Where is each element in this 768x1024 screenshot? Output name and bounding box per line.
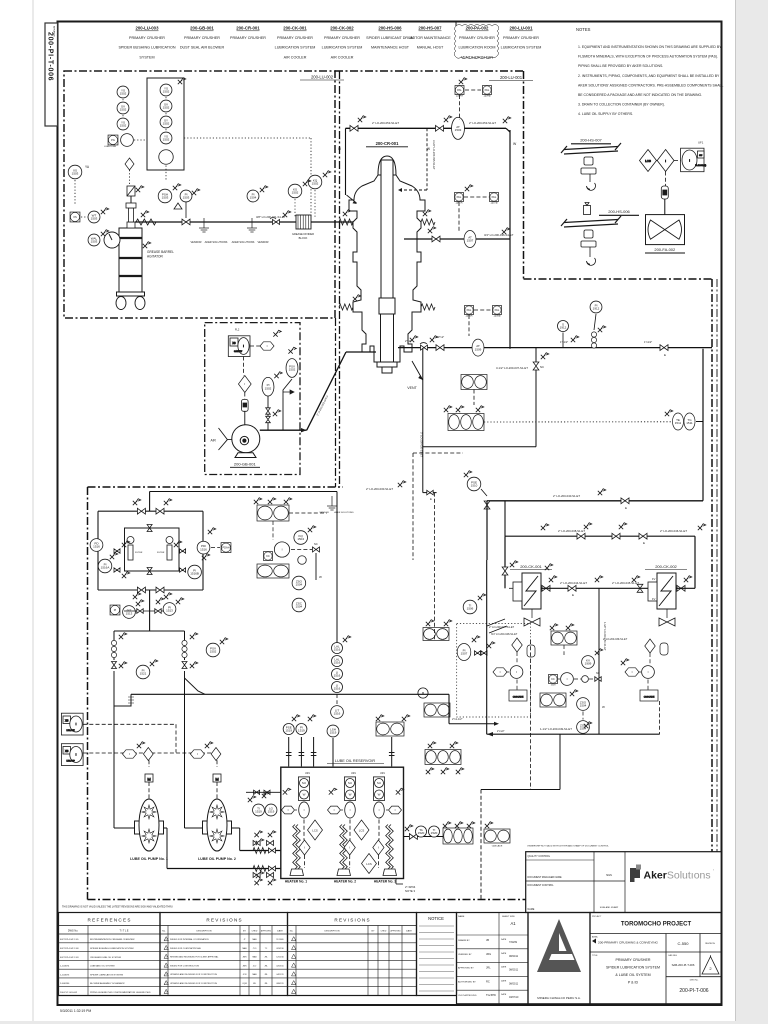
svg-text:DWG No.: DWG No. (690, 980, 699, 982)
svg-text:PAL: PAL (457, 195, 462, 199)
svg-text:R E V I S I O N S: R E V I S I O N S (206, 918, 241, 923)
svg-text:1504: 1504 (297, 537, 304, 541)
vent pair box (376, 722, 404, 736)
svg-text:02/13/11: 02/13/11 (276, 965, 283, 967)
signal to AT-1507 (458, 202, 460, 232)
heater diamond 1 (299, 840, 310, 855)
valve tag flag (256, 872, 264, 878)
svg-text:08/02/11: 08/02/11 (509, 982, 519, 985)
svg-text:1516: 1516 (334, 712, 341, 716)
angle valve pump1 (113, 671, 115, 680)
svg-text:CRUSHER LUBE OIL SYSTEM: CRUSHER LUBE OIL SYSTEM (90, 957, 121, 959)
svg-text:PA-H-002(M): PA-H-002(M) (695, 164, 706, 167)
valve tag flag (274, 372, 282, 378)
svg-text:DRAWN BY: DRAWN BY (458, 939, 470, 942)
instrument KQ-1502 (308, 175, 322, 189)
valve tag flag (503, 117, 511, 123)
valve tag flag (136, 600, 144, 606)
valve tag flag (566, 624, 574, 630)
valve tag flag (110, 553, 118, 559)
valve below filters R (155, 609, 161, 614)
heater zigzag 2 (340, 825, 345, 870)
svg-text:BLOCK: BLOCK (299, 236, 308, 240)
indicator TI-1506 (463, 600, 477, 614)
pump2 suction connect (185, 827, 203, 829)
stack oval W 3 (374, 790, 383, 799)
page bottom gray margin (0, 1021, 768, 1024)
interlock diamond fan1 (512, 638, 523, 652)
svg-text:AGITATOR: AGITATOR (147, 255, 163, 259)
enclosure top dashed (413, 452, 463, 454)
valve tag flag (444, 620, 452, 626)
valve crusher upper (432, 236, 440, 242)
svg-text:PRIMARY CRUSHER: PRIMARY CRUSHER (184, 36, 220, 40)
triple instrument TC-1511 (448, 414, 484, 431)
svg-text:DESCRIPTION: DESCRIPTION (197, 931, 212, 933)
pump1 suction drop (113, 631, 115, 660)
svg-text:LUB.PMP: LUB.PMP (67, 730, 76, 732)
svg-text:NAME: NAME (528, 908, 535, 911)
svg-text:1520: 1520 (431, 831, 438, 835)
title block bottom (457, 1003, 722, 1005)
valve CK-001 outlet (542, 585, 550, 591)
svg-text:1502: 1502 (163, 106, 170, 110)
reservoir top-left valve (254, 790, 260, 794)
valve tag flag (595, 576, 603, 582)
svg-text:E: E (430, 497, 432, 501)
hoist motor M capsule (661, 186, 668, 199)
filter top valve R (156, 508, 164, 514)
pipe drop to arrow branch (448, 694, 450, 723)
interlock diamond fan2 (645, 639, 656, 653)
svg-text:1519: 1519 (330, 731, 337, 735)
svg-text:DUST SEAL AIR BLOWER: DUST SEAL AIR BLOWER (180, 46, 225, 50)
svg-text:MAB: MAB (252, 938, 257, 941)
LCS diamond 1 (308, 820, 323, 840)
signal combo to diamond (243, 357, 245, 376)
riser center (332, 738, 334, 766)
svg-text:PROJECT: PROJECT (592, 916, 602, 918)
valve tag flag (119, 633, 127, 639)
drain valve 4 (267, 872, 274, 877)
svg-text:AIR COOLER: AIR COOLER (331, 55, 354, 59)
svg-text:UR1: UR1 (305, 772, 310, 775)
svg-text:200-FA-002: 200-FA-002 (654, 247, 676, 252)
svg-text:GASTFW: GASTFW (234, 350, 242, 353)
suction valve 1 (111, 662, 116, 669)
valve tag flag (684, 576, 692, 582)
svg-text:& LUBE OIL SYSTEM: & LUBE OIL SYSTEM (615, 973, 650, 977)
signature row (457, 989, 529, 991)
revisions1 col divider (248, 926, 250, 996)
svg-text:APPROVED: APPROVED (391, 930, 402, 933)
svg-text:1″x1/2″: 1″x1/2″ (644, 340, 652, 344)
relief PSE-1510 (467, 477, 481, 491)
svg-text:1516: 1516 (334, 648, 341, 652)
hoist control box UF1 (681, 148, 707, 172)
revisions2 col divider (367, 926, 369, 996)
references col divider (87, 926, 89, 996)
svg-text:04/11/11: 04/11/11 (276, 974, 283, 976)
svg-text:200-PI-T-001-002: 200-PI-T-001-002 (60, 992, 78, 994)
svg-text:HEATER No. 1: HEATER No. 1 (285, 880, 307, 884)
valve tag flag (698, 524, 706, 530)
NC valve fans (595, 677, 601, 682)
pipe riser to return (559, 734, 561, 789)
svg-text:ISSUED FOR CLIENT APPROVAL: ISSUED FOR CLIENT APPROVAL (170, 947, 202, 950)
pipe return header (131, 693, 449, 695)
panel instrument YS2 (160, 132, 172, 144)
valve tag flag (248, 796, 256, 802)
svg-text:1507: 1507 (467, 239, 474, 243)
ZLL pair upper (551, 631, 577, 645)
grease pump assembly (127, 186, 135, 196)
valve tag flag (541, 353, 549, 359)
controller fan1 (510, 666, 523, 679)
controller big I (274, 542, 289, 557)
stack oval SU 1 (299, 778, 308, 787)
pipe drop from cooler line (598, 588, 600, 700)
temp TI-1520 (428, 826, 439, 837)
pipe right vertical descend (702, 349, 704, 501)
filter drain valve 4 (180, 568, 186, 572)
valve tag flag (122, 572, 130, 578)
pipe supply to coolers (487, 500, 703, 502)
svg-text:MAB: MAB (252, 973, 257, 976)
svg-text:1507: 1507 (461, 652, 468, 656)
indicator PI-1507 (457, 644, 471, 661)
valve supply E (621, 498, 629, 504)
element TE-1511 (672, 413, 683, 430)
filter drain valve 3 (180, 549, 186, 553)
svg-text:2-008190: 2-008190 (60, 983, 70, 985)
instrument YS-1502B (117, 118, 129, 130)
filter element right (166, 537, 173, 561)
equipment header 200-GB-001 (180, 26, 225, 50)
check valve lower (421, 345, 428, 350)
CK-002 fan (659, 618, 675, 626)
svg-text:QUALITY CONTROL: QUALITY CONTROL (528, 855, 551, 858)
svg-text:200-CK-001: 200-CK-001 (283, 26, 307, 31)
revision2 triangle row 5 (292, 972, 296, 976)
vent instrument PSE (283, 723, 294, 734)
svg-text:PAL: PAL (485, 88, 490, 92)
svg-text:DOCUMENT MANAGER NAME: DOCUMENT MANAGER NAME (528, 876, 562, 879)
svg-text:DATE: DATE (501, 952, 507, 955)
svg-text:W: W (349, 793, 352, 797)
revisions1 col divider (271, 926, 273, 996)
blower fan 200-GB-001 (232, 425, 260, 458)
valve tag flag (410, 336, 418, 342)
svg-text:W: W (602, 705, 605, 709)
SAH SAL triple box (425, 750, 461, 765)
valve tag flag (621, 659, 629, 665)
solenoid KV-1909 (582, 656, 595, 669)
barrel pump head (126, 195, 136, 228)
valve CK-002 inlet (637, 584, 643, 592)
svg-text:PIPING SHALL BE PROVIDED BY AK: PIPING SHALL BE PROVIDED BY AKER SOLUTIO… (578, 64, 663, 68)
quality control block frame (526, 852, 722, 913)
valve tag flag (254, 498, 262, 504)
pump gear star (210, 805, 224, 819)
svg-text:2" LO-200-053-S1-ET: 2" LO-200-053-S1-ET (372, 121, 399, 125)
svg-text:1-104674: 1-104674 (60, 966, 70, 968)
qc col divider 2 (624, 852, 626, 913)
valve tag flag (164, 593, 172, 599)
svg-text:DATE: DATE (501, 993, 507, 996)
svg-text:DATE: DATE (501, 966, 507, 969)
position ZSC-1504 (577, 721, 590, 734)
page left edge line (32, 0, 34, 1021)
dual temp TAH/TI-1511 (461, 375, 487, 390)
transmitter PDI-1516 (197, 541, 210, 554)
wire M to fan (664, 199, 666, 215)
equipment header 200-LU-001 (501, 26, 542, 50)
stack big oval 3 (374, 802, 385, 818)
svg-text:PRIMARY CRUSHER: PRIMARY CRUSHER (615, 958, 650, 962)
pipe crusher upper right (404, 238, 510, 240)
svg-text:200-CK-001: 200-CK-001 (520, 564, 542, 569)
pipe top center run (346, 127, 507, 129)
filter top valve L (137, 508, 145, 514)
grease line check (273, 219, 280, 224)
instrument XS-1503 (68, 165, 82, 179)
valve tag flag (455, 822, 463, 828)
wire solenoid to blower (244, 411, 246, 424)
svg-text:PIPING LEGEND P&ID / INSTRUMEN: PIPING LEGEND P&ID / INSTRUMENTATION LEG… (90, 991, 151, 994)
valve tag flag (133, 593, 141, 599)
reservoir instrument stack 1 (298, 777, 309, 801)
svg-text:UPDATED AND RE-ISSUED FOR CONS: UPDATED AND RE-ISSUED FOR CONSTRUCTION (170, 973, 218, 976)
svg-text:LUBRICATION SYSTEM: LUBRICATION SYSTEM (501, 46, 542, 50)
signal between PAL pair (465, 89, 481, 91)
svg-text:1502: 1502 (163, 138, 170, 142)
pump motor M box (213, 774, 221, 782)
svg-text:AKER SOLUTIONS: AKER SOLUTIONS (205, 240, 228, 244)
svg-text:1519: 1519 (285, 729, 292, 733)
svg-text:CASCADE: CASCADE (492, 845, 503, 848)
boundary LU-001 bottom-right segment (524, 278, 713, 280)
svg-text:1″x1/2″: 1″x1/2″ (560, 340, 568, 344)
svg-text:HEATER No. 3: HEATER No. 3 (374, 880, 396, 884)
svg-text:3/8" LO-200-021-S1-ET: 3/8" LO-200-021-S1-ET (256, 215, 286, 219)
analyzer AT-1503 (452, 117, 465, 139)
svg-text:RC: RC (486, 979, 490, 983)
header spring drop to riser 1 (114, 694, 131, 706)
svg-text:LUBRICATION SYSTEM: LUBRICATION SYSTEM (275, 46, 316, 50)
svg-text:APPROVED: APPROVED (261, 930, 272, 933)
svg-text:1519: 1519 (255, 810, 262, 814)
svg-text:SYSTEM: SYSTEM (139, 55, 154, 59)
svg-text:DOCUMENT CONTROL: DOCUMENT CONTROL (528, 884, 555, 887)
svg-text:PRIMARY CRUSHER: PRIMARY CRUSHER (459, 36, 495, 40)
svg-text:R E V I S I O N S: R E V I S I O N S (334, 918, 369, 923)
svg-text:LUBE OIL RESERVOIR: LUBE OIL RESERVOIR (335, 759, 376, 763)
gauge PI-1521 (136, 665, 150, 679)
valve tag flag (164, 499, 172, 505)
valve tag flag (549, 576, 557, 582)
svg-text:LUB.PMP: LUB.PMP (67, 761, 76, 763)
pipe between coolers (541, 587, 654, 589)
valve tag flag (510, 561, 518, 567)
valve tag flag (273, 330, 281, 336)
svg-text:3-1/2" LO-200-037-S1-ET: 3-1/2" LO-200-037-S1-ET (496, 366, 528, 370)
bypass valve 1 (577, 533, 585, 539)
valve CK-001 inlet (502, 567, 508, 575)
boundary LU-001 left edge (523, 71, 525, 279)
TDI pair box (423, 628, 449, 641)
svg-text:1/2″x2″: 1/2″x2″ (436, 335, 444, 339)
svg-text:1510: 1510 (471, 484, 478, 488)
svg-text:FV: FV (652, 577, 656, 581)
svg-text:DATE: DATE (406, 930, 412, 933)
reservoir outlet valve (409, 834, 417, 840)
svg-text:MOTOR MAINTENANCE: MOTOR MAINTENANCE (409, 36, 451, 40)
svg-text:08/02/11: 08/02/11 (509, 969, 519, 972)
TSH TSL pair box (424, 703, 450, 717)
stack hex 3 (389, 806, 402, 814)
small valve b (481, 651, 487, 655)
blower interlock diamond (238, 376, 251, 393)
svg-text:02/02/10: 02/02/10 (276, 948, 283, 950)
blower hex I (260, 342, 274, 350)
svg-text:FV: FV (652, 597, 656, 601)
cad col divider (665, 952, 667, 1004)
instrument WT-1503 (88, 211, 100, 223)
revisions1 col divider (259, 926, 261, 996)
svg-text:INSTRUMENTATION CRUSHER OVERVI: INSTRUMENTATION CRUSHER OVERVIEW (90, 938, 135, 941)
valve tag flag (268, 879, 276, 885)
valve tag flag (260, 186, 268, 192)
pipe cooler bypass top (505, 535, 695, 537)
LCS diamond 3 (362, 854, 377, 874)
revisions2 col divider (401, 926, 403, 996)
svg-text:NOTES: NOTES (576, 27, 591, 32)
svg-text:2. INSTRUMENTS, PIPING, COMPO: 2. INSTRUMENTS, PIPING, COMPONENTS, AND … (578, 74, 720, 78)
pipe CK-001 feed (504, 536, 506, 588)
valve tag flag (426, 620, 434, 626)
revision triangle row 3 (164, 954, 168, 958)
svg-text:HEATER No. 2: HEATER No. 2 (334, 880, 356, 884)
svg-text:SAB-200-PI-T-006: SAB-200-PI-T-006 (672, 963, 695, 967)
valve crusher lower (436, 345, 444, 351)
svg-text:R E F E R E N C E S: R E F E R E N C E S (88, 918, 131, 923)
filter drain valve 2 (114, 568, 120, 572)
boundary right vertical (711, 279, 713, 900)
TC-1520 cluster (443, 828, 473, 844)
valve tag flag (444, 406, 452, 412)
svg-text:2″x1-1/2″: 2″x1-1/2″ (452, 717, 463, 721)
PI tap valve 1 (266, 408, 271, 414)
svg-text:PRIMARY CRUSHER: PRIMARY CRUSHER (129, 36, 165, 40)
svg-text:APPROVED BY: APPROVED BY (458, 967, 474, 970)
cloud revision outline around PA-002 header (454, 21, 499, 59)
svg-text:DATE: DATE (277, 930, 283, 933)
pump1 suction connect (114, 827, 135, 829)
instrument PAL-1504B (483, 86, 492, 95)
panel instrument SY-1502 (160, 116, 172, 128)
svg-text:6: 6 (166, 992, 167, 994)
svg-text:AREA: AREA (592, 936, 598, 939)
signal panel to right (184, 137, 311, 139)
pump1 check (269, 866, 276, 871)
tap instrument S (557, 320, 568, 331)
svg-text:2" LO-200-046-S1-ET: 2" LO-200-046-S1-ET (660, 529, 687, 533)
svg-text:AKER SOLUTIONS: AKER SOLUTIONS (232, 240, 255, 244)
svg-text:1509B: 1509B (494, 315, 501, 318)
signature row (457, 948, 529, 950)
valve tag flag (570, 690, 578, 696)
svg-text:NC: NC (596, 672, 600, 675)
vent instrument PI (296, 723, 307, 734)
pipe long left drop (486, 560, 488, 734)
svg-text:MAB: MAB (252, 956, 257, 959)
svg-text:E: E (643, 541, 645, 545)
svg-text:XS: XS (65, 749, 69, 753)
vent LSH (327, 725, 339, 737)
controller KC-1509 (549, 675, 558, 684)
valve tag flag (176, 598, 184, 604)
heater zigzag 2b (343, 825, 348, 870)
svg-text:200-HS-007: 200-HS-007 (580, 138, 602, 143)
selector combo unit lower (61, 744, 83, 766)
valve tag flag (441, 768, 449, 774)
svg-text:PRIMARY CRUSHER: PRIMARY CRUSHER (230, 36, 266, 40)
instrument pump unit (121, 134, 134, 147)
hand switch pump1 (123, 750, 137, 758)
revision2 triangle row 3 (292, 954, 296, 958)
valve tag flag (428, 742, 436, 748)
svg-text:DATE: DATE (501, 938, 507, 941)
equipment header 200-PA-002 (458, 26, 495, 60)
svg-text:ISSUED FOR INTERNAL COORDINATI: ISSUED FOR INTERNAL COORDINATION (170, 938, 209, 941)
instrument KS-1502 (288, 184, 302, 198)
signal row upper (83, 723, 176, 725)
reservoir instrument stack 2 (344, 777, 355, 801)
svg-text:2" LO-200-040-S1-ET: 2" LO-200-040-S1-ET (553, 494, 580, 498)
svg-text:1519: 1519 (298, 729, 305, 733)
junction small (582, 676, 589, 683)
boundary 200-GB-001 dash-dot box (205, 323, 300, 475)
monorail hoist 200-HS-006 (584, 203, 591, 215)
svg-text:I: I (244, 382, 245, 386)
svg-text:DATE: DATE (501, 979, 507, 982)
drain valve 1 (253, 840, 260, 845)
valve tag flag (254, 831, 262, 837)
valve tag flag (487, 642, 495, 648)
svg-text:1-1/2" LO-200-049-S1-ET: 1-1/2" LO-200-049-S1-ET (540, 727, 572, 731)
indicator TI-1519 (253, 804, 265, 816)
valve tag flag (598, 489, 606, 495)
revisions table 1 frame (160, 913, 288, 996)
CK-001 fan (524, 618, 540, 626)
valve tag flag (143, 242, 151, 248)
svg-text:4: 4 (166, 974, 167, 976)
svg-text:200-LU-001: 200-LU-001 (500, 75, 523, 80)
svg-text:1516B: 1516B (190, 572, 199, 576)
boundary left vertical (87, 487, 89, 900)
svg-text:CHKD: CHKD (381, 931, 387, 933)
svg-text:1506: 1506 (467, 607, 474, 611)
transmitter AT-1507 (464, 231, 476, 248)
valve tag flag (119, 662, 127, 668)
small connector (298, 556, 307, 565)
svg-text:3/4" LO-200-048-S1-ET: 3/4" LO-200-048-S1-ET (491, 633, 518, 636)
panel instrument YS-1502 (160, 84, 172, 96)
revision triangle row 2 (164, 945, 168, 949)
svg-text:60271214-SP-2-05: 60271214-SP-2-05 (60, 939, 79, 941)
svg-text:1-104675: 1-104675 (60, 974, 70, 976)
